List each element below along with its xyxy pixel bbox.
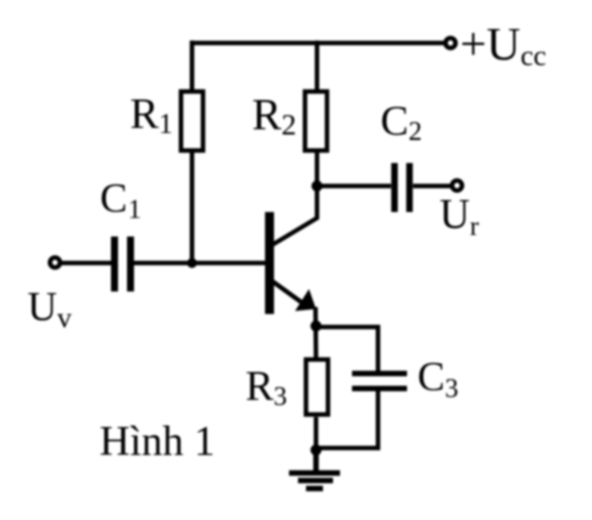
wire emitter to C3 top: [316, 327, 378, 373]
wire C2 to Ur: [413, 184, 450, 189]
svg-text:R3: R3: [246, 364, 288, 411]
node ground junction: [311, 445, 322, 456]
node emitter junction: [311, 321, 322, 332]
terminal +Ucc: [446, 38, 456, 48]
wire R2 top: [315, 41, 320, 93]
capacitor C2: [395, 163, 410, 212]
wire emitter to R3: [313, 307, 318, 359]
wire C1 to base: [134, 261, 265, 266]
svg-text:Uv: Uv: [28, 283, 73, 334]
transistor Q1: [265, 186, 317, 314]
wire top rail: [192, 41, 444, 46]
svg-text:R1: R1: [130, 91, 173, 140]
svg-text:C2: C2: [381, 99, 423, 146]
resistor R3: [306, 360, 328, 415]
svg-text:Hình 1: Hình 1: [100, 419, 216, 465]
ground: [289, 450, 340, 489]
wire R1 top: [190, 41, 195, 93]
wire R2 bottom: [315, 152, 320, 188]
capacitor C3: [352, 374, 407, 389]
terminal Ur: [452, 181, 462, 191]
svg-text:R2: R2: [252, 90, 296, 142]
svg-text:C3: C3: [418, 353, 459, 403]
node base junction: [187, 258, 197, 268]
wire C3 bottom: [316, 391, 378, 448]
svg-text:Ur: Ur: [440, 192, 479, 241]
wire R3 bottom: [314, 417, 319, 452]
resistor R2: [305, 92, 327, 151]
node collector junction: [312, 181, 323, 192]
capacitor C1: [115, 237, 131, 292]
wire Uv to C1: [61, 261, 111, 266]
wire collector to C2: [317, 184, 391, 189]
terminal Uv: [50, 258, 60, 268]
svg-text:+Ucc: +Ucc: [460, 19, 546, 73]
resistor R1: [181, 92, 203, 151]
wire R1 bottom: [190, 152, 195, 264]
svg-text:C1: C1: [100, 175, 141, 225]
